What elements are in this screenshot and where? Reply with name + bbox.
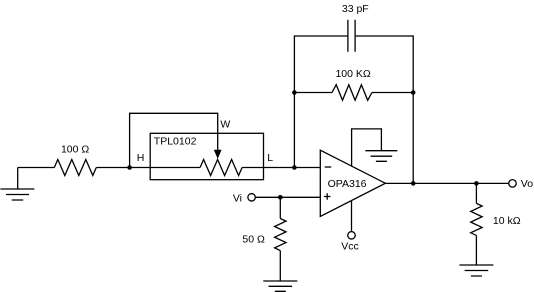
svg-text:50 Ω: 50 Ω — [242, 234, 265, 246]
svg-text:Vi: Vi — [233, 193, 242, 205]
svg-text:L: L — [267, 152, 273, 164]
svg-text:TPL0102: TPL0102 — [154, 136, 197, 148]
svg-text:10 kΩ: 10 kΩ — [493, 215, 521, 227]
svg-text:OPA316: OPA316 — [328, 178, 367, 190]
svg-text:33 pF: 33 pF — [342, 3, 369, 15]
svg-text:100 KΩ: 100 KΩ — [335, 68, 370, 80]
svg-text:100 Ω: 100 Ω — [61, 143, 89, 155]
svg-text:W: W — [220, 119, 230, 131]
svg-text:H: H — [137, 152, 145, 164]
svg-text:Vcc: Vcc — [341, 241, 359, 253]
svg-text:Vo: Vo — [521, 178, 533, 190]
